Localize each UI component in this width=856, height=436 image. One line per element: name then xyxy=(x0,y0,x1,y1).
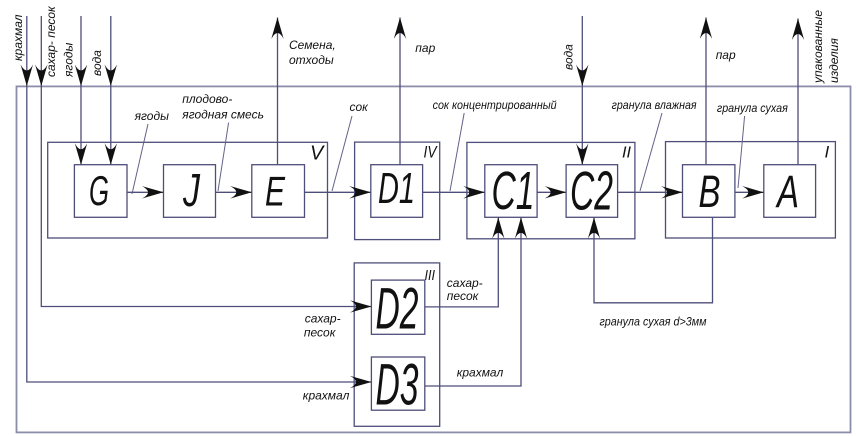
group III box xyxy=(354,263,440,426)
group II box xyxy=(467,142,635,238)
svg-text:IV: IV xyxy=(424,143,438,162)
block J xyxy=(164,165,216,218)
svg-text:сок концентрированный: сок концентрированный xyxy=(433,98,557,112)
svg-text:II: II xyxy=(622,145,632,162)
wire D1 to C1 xyxy=(423,191,485,193)
svg-text:крахмал: крахмал xyxy=(11,14,25,61)
input line sakhar-pesok xyxy=(40,16,42,86)
svg-text:D3: D3 xyxy=(376,353,419,418)
block C2 xyxy=(566,165,618,218)
svg-text:D2: D2 xyxy=(376,277,419,342)
svg-text:отходы: отходы xyxy=(289,53,334,67)
feedback B to C2 xyxy=(594,217,713,302)
block G xyxy=(74,165,127,218)
svg-text:J: J xyxy=(182,164,200,216)
group IV box xyxy=(355,142,440,240)
svg-text:B: B xyxy=(699,166,721,217)
input line yagody xyxy=(80,16,82,86)
output line par 2 xyxy=(705,18,707,165)
input line voda center xyxy=(581,16,583,86)
svg-text:упакованные: упакованные xyxy=(811,10,825,84)
wire J to E xyxy=(216,191,252,193)
svg-text:Семена,: Семена, xyxy=(289,38,336,52)
svg-text:пар: пар xyxy=(716,48,736,62)
block A xyxy=(764,165,816,218)
svg-text:D1: D1 xyxy=(378,164,415,213)
block D3 xyxy=(371,357,424,410)
svg-text:гранула влажная: гранула влажная xyxy=(612,98,698,112)
svg-text:сахар- песок: сахар- песок xyxy=(44,5,58,77)
wire B to A xyxy=(735,191,764,193)
leader yagody xyxy=(132,124,148,194)
svg-text:E: E xyxy=(265,168,286,215)
group V box xyxy=(48,142,328,238)
svg-text:III: III xyxy=(425,267,436,284)
svg-text:V: V xyxy=(310,143,325,165)
leader granula sukhaya xyxy=(738,116,745,188)
wire C1 to C2 xyxy=(537,191,566,193)
svg-text:вода: вода xyxy=(90,50,104,76)
block E xyxy=(252,165,305,218)
svg-text:крахмал: крахмал xyxy=(303,389,350,403)
wire E to D1 xyxy=(305,191,371,193)
input line voda left xyxy=(110,16,112,86)
svg-text:A: A xyxy=(775,166,799,217)
svg-text:сахар-: сахар- xyxy=(447,276,483,290)
input line krakhmal xyxy=(26,16,28,86)
svg-text:ягоды: ягоды xyxy=(62,43,76,79)
svg-text:плодово-: плодово- xyxy=(182,92,232,106)
group I box xyxy=(666,142,836,238)
wire C2 to B xyxy=(618,191,683,193)
svg-text:изделия: изделия xyxy=(827,38,841,83)
leader sok kontsentr xyxy=(450,113,464,191)
svg-text:C2: C2 xyxy=(570,160,613,222)
svg-text:песок: песок xyxy=(304,326,337,340)
block D2 xyxy=(371,280,424,334)
svg-text:вода: вода xyxy=(562,44,576,70)
svg-text:ягоды: ягоды xyxy=(134,109,170,123)
svg-text:ягодная смесь: ягодная смесь xyxy=(181,108,264,122)
leader sok xyxy=(332,116,352,191)
block B xyxy=(683,165,735,218)
svg-text:гранула сухая: гранула сухая xyxy=(717,101,789,115)
outer system frame xyxy=(17,86,851,432)
output line semena otkhody xyxy=(277,18,279,165)
block D1 xyxy=(371,165,423,218)
wire D3 to C1 xyxy=(425,217,521,386)
output line upakovannye xyxy=(797,19,799,165)
wire D2 to C1 xyxy=(425,217,499,307)
svg-text:сахар-: сахар- xyxy=(305,312,341,326)
leader plodovo xyxy=(218,123,229,191)
svg-text:сок: сок xyxy=(350,100,370,114)
svg-text:I: I xyxy=(825,143,830,162)
wire G to J xyxy=(127,191,164,193)
svg-text:песок: песок xyxy=(447,289,480,303)
svg-text:пар: пар xyxy=(415,41,435,55)
svg-text:гранула сухая d>3мм: гранула сухая d>3мм xyxy=(600,315,707,329)
block C1 xyxy=(485,165,537,218)
output line par 1 xyxy=(399,18,401,165)
svg-text:G: G xyxy=(89,167,109,214)
leader granula vlazhnaya xyxy=(640,113,662,191)
svg-text:C1: C1 xyxy=(492,161,535,221)
svg-text:крахмал: крахмал xyxy=(457,366,504,380)
